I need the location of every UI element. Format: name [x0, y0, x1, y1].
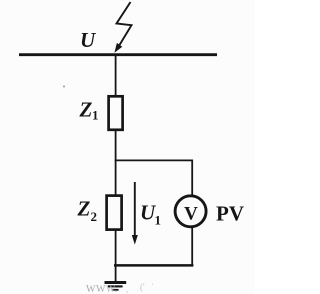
svg-text:1: 1 [155, 213, 162, 228]
wire Z1 to ground node [115, 130, 117, 266]
voltmeter PV (V) [175, 196, 206, 227]
svg-text:1: 1 [92, 108, 99, 123]
watermark [86, 282, 154, 294]
svg-text:2: 2 [91, 209, 98, 224]
label PV [216, 202, 244, 226]
svg-text:U: U [80, 28, 97, 52]
label U (bus voltage) [80, 28, 97, 52]
svg-text:V: V [184, 204, 198, 225]
busbar (supply bus) [19, 53, 217, 56]
label U1 [140, 201, 161, 228]
node junction branch wire (horizontal) [115, 159, 193, 161]
wire branch to voltmeter [191, 160, 193, 197]
svg-text:WWW.: WWW. [86, 284, 118, 294]
ground [105, 265, 127, 290]
speck [63, 86, 65, 88]
bottom return wire [114, 264, 193, 267]
impedance Z1 [109, 96, 123, 130]
lightning fault arrow [114, 2, 131, 53]
label Z1 [79, 98, 99, 123]
wire voltmeter to bottom [191, 228, 193, 267]
svg-text:Z: Z [77, 196, 91, 220]
wire bus to Z1 [115, 56, 117, 97]
svg-text:Z: Z [79, 98, 93, 122]
svg-text:PV: PV [216, 202, 244, 226]
arrow U1 (voltage across Z2) [132, 182, 138, 245]
impedance Z2 [107, 196, 122, 230]
svg-text:(': (' [140, 282, 145, 292]
label Z2 [77, 196, 98, 224]
svg-text:,: , [126, 284, 128, 294]
